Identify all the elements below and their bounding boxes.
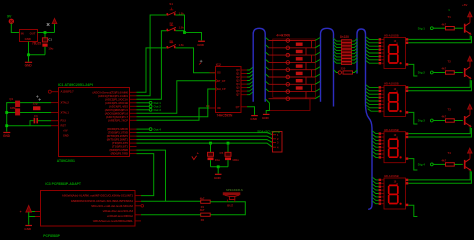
svg-text:πRCA/Sensor-test1/ODOut/SDL: πRCA/Sensor-test1/ODOut/SDL xyxy=(93,219,134,223)
ground GND5 xyxy=(214,174,222,180)
ground GND3 xyxy=(197,41,205,47)
svg-text:GND: GND xyxy=(3,134,11,138)
svg-text:T3: T3 xyxy=(448,107,452,111)
svg-text:4k7: 4k7 xyxy=(442,115,447,119)
7-seg display LED4 xyxy=(379,174,409,209)
svg-text:S1: S1 xyxy=(169,2,173,6)
svg-text:100n: 100n xyxy=(232,158,239,162)
RN2 resistor rows xyxy=(334,38,358,42)
svg-text:4k7: 4k7 xyxy=(442,67,447,71)
svg-text:GND: GND xyxy=(262,116,270,120)
crystal Q1 xyxy=(9,97,20,115)
svg-text:(ADC7)(SCK)P1.7: (ADC7)(SCK)P1.7 xyxy=(106,115,129,119)
svg-text:SDA+SCL×prog: SDA+SCL×prog xyxy=(257,130,280,134)
wire LED1 dp pin xyxy=(408,64,417,76)
op SV1 header box xyxy=(273,132,283,153)
svg-text:GND: GND xyxy=(214,176,222,180)
svg-text:(ADC6)(MISO)P1.6: (ADC6)(MISO)P1.6 xyxy=(105,111,129,115)
junction on line xyxy=(209,142,212,145)
svg-text:Q7': Q7' xyxy=(236,106,240,109)
op IC1 AT89C2051 box xyxy=(59,88,130,157)
wire P3.3 long line to connector pin3 xyxy=(137,140,273,143)
svg-text:GND0/OSC1/OSCO·A1/Sel1·SCL/SDA: GND0/OSC1/OSCO·A1/Sel1·SCL/SDA·INT0/SDA1 xyxy=(71,199,134,203)
left pin names and clock wedges xyxy=(217,72,226,110)
svg-text:Dig 3: Dig 3 xyxy=(418,119,425,123)
svg-text:DS: DS xyxy=(217,72,221,75)
switch S3 xyxy=(167,40,185,49)
svg-text:SPEAKER-S: SPEAKER-S xyxy=(226,188,243,192)
wire S3 right down to 595 DS xyxy=(176,48,216,73)
wire S1 right down xyxy=(176,15,185,33)
supply +5V arrow xyxy=(26,206,32,213)
svg-text:OE: OE xyxy=(217,107,221,110)
svg-text:(RD0)P3.7/RD: (RD0)P3.7/RD xyxy=(111,152,128,156)
wire LED3 anodes to T3 xyxy=(408,127,470,134)
node label P3.0 xyxy=(137,127,162,131)
svg-text:IN: IN xyxy=(21,31,24,35)
supply symbol +5V arrow xyxy=(47,19,57,26)
svg-text:8×220: 8×220 xyxy=(340,35,349,39)
resistor R1 xyxy=(200,197,210,210)
wire bus leg to RN1 ground xyxy=(266,99,270,114)
wire P3.2 long line to connector pin2 xyxy=(137,136,273,139)
svg-text:(ADC0+Servo)(T2)P1.0/AIN0: (ADC0+Servo)(T2)P1.0/AIN0 xyxy=(93,90,129,94)
right pin stubs P1 group xyxy=(130,92,137,153)
svg-text:Out 4: Out 4 xyxy=(154,127,162,131)
wire P3.1 long line to connector pin1 xyxy=(137,133,273,135)
segment wires bus to LED2 xyxy=(366,85,379,111)
RN1 rung rows: lead, circle, body, bus rippers xyxy=(266,38,321,43)
segment wires bus to LED3 xyxy=(372,131,378,157)
wire GND pin left down xyxy=(29,217,35,225)
svg-text:4k7: 4k7 xyxy=(442,22,447,26)
svg-text:78L05: 78L05 xyxy=(32,42,41,46)
ground GND4 xyxy=(250,115,258,121)
op IC2 74HC595 box xyxy=(216,67,242,113)
right pin names Q0-Q7 xyxy=(236,69,241,109)
svg-text:vObat+Osc-test·SCL/A3: vObat+Osc-test·SCL/A3 xyxy=(103,209,134,213)
svg-text:+: + xyxy=(20,210,22,214)
svg-text:(T00)P3.4/T0: (T00)P3.4/T0 xyxy=(112,141,128,145)
wire P3.4 long line to connector pin4 xyxy=(137,143,273,147)
junction xyxy=(183,31,186,34)
wire junction to ground xyxy=(185,33,202,41)
svg-text:IC3 PCF8583P-ADAPT: IC3 PCF8583P-ADAPT xyxy=(45,182,82,186)
svg-text:RST: RST xyxy=(61,124,67,128)
right pin stubs xyxy=(135,196,141,221)
svg-text:9V: 9V xyxy=(7,15,12,19)
junction xyxy=(5,111,8,114)
7-seg display LED3 xyxy=(379,128,409,163)
wire caps to ground xyxy=(211,166,229,168)
svg-text:Dig 4: Dig 4 xyxy=(418,163,425,167)
svg-text:Dig 1: Dig 1 xyxy=(418,26,425,30)
svg-text:AT89C2051: AT89C2051 xyxy=(57,159,75,163)
bus arch B from RN1 to RN2 xyxy=(321,28,334,106)
wire P1.1 up to button S1 left xyxy=(137,15,167,96)
node 9V supply pad X1 xyxy=(7,15,14,24)
svg-text:ST_CP: ST_CP xyxy=(217,80,225,83)
wire LED3 dp pin xyxy=(408,159,417,170)
node label P1.5 xyxy=(137,108,162,112)
resistor R2 xyxy=(200,208,210,222)
svg-text:C1: C1 xyxy=(48,38,52,42)
svg-text:(ADC1)(T2EX)P1.1/AIN1: (ADC1)(T2EX)P1.1/AIN1 xyxy=(98,94,129,98)
svg-text:22p: 22p xyxy=(33,102,38,106)
wire Q7' to ground xyxy=(247,107,255,115)
ground GND6 xyxy=(24,225,32,231)
wire LED2 anodes to T2 xyxy=(408,80,470,88)
svg-text:GND: GND xyxy=(25,37,31,41)
ground GND1 xyxy=(25,62,33,68)
pin P3.7 stub with circle xyxy=(48,90,51,93)
wire P1.6 to 595 ST_CP xyxy=(137,81,216,114)
switch S2 xyxy=(167,21,185,31)
svg-text:vcObd2-test·tODOut: vcObd2-test·tODOut xyxy=(107,214,133,218)
wire LED4 dp pin xyxy=(408,205,417,216)
svg-text:(AREF)P1.7/ICP: (AREF)P1.7/ICP xyxy=(108,118,128,122)
svg-text:IC1 AT89C2051-24PI: IC1 AT89C2051-24PI xyxy=(58,83,93,87)
pin stubs xyxy=(273,135,277,148)
svg-text:(ADC4)P1.4/SS: (ADC4)P1.4/SS xyxy=(109,104,128,108)
wire to 595 OE xyxy=(137,108,210,120)
wire regulator GND down xyxy=(29,42,46,55)
wire RTC pin to R1 xyxy=(141,200,201,202)
wire XTAL rail and XTAL2 line xyxy=(7,103,51,132)
op IC3 PCF8583 box xyxy=(41,191,136,227)
svg-text:T1: T1 xyxy=(448,15,452,19)
wire LED4 anodes to T4 xyxy=(408,171,470,180)
svg-text:GND: GND xyxy=(250,117,258,121)
node label P1.3 xyxy=(137,101,162,105)
buzzer SP1 speaker xyxy=(223,188,243,207)
pin 205.8 circle xyxy=(141,205,144,208)
svg-text:74HC595N: 74HC595N xyxy=(217,114,233,118)
junction on line xyxy=(227,142,230,145)
pin name rows xyxy=(62,194,134,223)
svg-text:+: + xyxy=(197,151,199,155)
svg-text:IC2: IC2 xyxy=(216,63,221,67)
capacitor C4 10u xyxy=(192,143,220,167)
svg-text:(WR0)P3.6/WR: (WR0)P3.6/WR xyxy=(109,148,128,152)
7-seg display LED2 xyxy=(379,82,409,117)
left pin stubs xyxy=(35,212,41,217)
wire LED1 anodes to T1 xyxy=(408,35,470,39)
svg-text:T4: T4 xyxy=(448,151,452,155)
pin stub xyxy=(51,120,59,122)
svg-text:4k7: 4k7 xyxy=(442,159,447,163)
svg-text:10u: 10u xyxy=(48,46,53,50)
svg-text:(INT00)P3.2/INT0: (INT00)P3.2/INT0 xyxy=(107,134,129,138)
right pin stubs Q0-Q7 xyxy=(241,70,247,107)
RN1 right side ladder links xyxy=(306,41,312,99)
segment wires bus to LED4 xyxy=(372,177,378,203)
svg-text:GND: GND xyxy=(25,64,33,68)
right pin names xyxy=(93,90,129,155)
wire up to +5V arrow xyxy=(54,24,56,33)
junction xyxy=(27,53,30,56)
svg-text:4×4k7RN: 4×4k7RN xyxy=(276,34,290,38)
bus arch A from 595 to RN1 xyxy=(253,28,265,101)
svg-text:(ADC2)P1.2/OC1A: (ADC2)P1.2/OC1A xyxy=(105,97,128,101)
svg-text:(T10)P3.5/T1: (T10)P3.5/T1 xyxy=(112,145,128,149)
voltage regulator IC5 78L05 xyxy=(20,30,42,46)
svg-text:Dig 2: Dig 2 xyxy=(418,71,425,75)
svg-text:Q1: Q1 xyxy=(9,97,13,101)
svg-text:+5V: +5V xyxy=(462,3,467,7)
wire 9V pad to regulator IN xyxy=(11,24,19,33)
svg-text:A0/Sel0(Adr)·ALARM_out/INT·OSC: A0/Sel0(Adr)·ALARM_out/INT·OSC1/CLK50Hz·… xyxy=(62,194,134,198)
bus display feeder xyxy=(357,29,372,209)
svg-text:A12/BP3.7: A12/BP3.7 xyxy=(61,90,75,94)
wire P1.0 up to button S3 left xyxy=(137,48,167,92)
junction node VCC xyxy=(44,31,47,34)
svg-text:PCF8583P: PCF8583P xyxy=(43,234,60,238)
svg-text:+5V: +5V xyxy=(63,130,68,133)
wire RST line xyxy=(7,125,51,127)
svg-text:OUT: OUT xyxy=(30,31,36,35)
svg-text:(ADC5)(MOSI)P1.5: (ADC5)(MOSI)P1.5 xyxy=(105,108,129,112)
svg-text:(TXD0)P3.1/TXD: (TXD0)P3.1/TXD xyxy=(108,131,128,135)
gray origin crosses xyxy=(36,95,41,101)
svg-text:(RXD0)P3.0/RXD: (RXD0)P3.0/RXD xyxy=(107,127,128,131)
wire LED2 dp pin xyxy=(408,112,417,124)
wire VCC pin left xyxy=(29,211,35,213)
capacitor C2 22p xyxy=(33,102,41,111)
svg-text:XTAL1: XTAL1 xyxy=(61,111,70,115)
svg-text:C5: C5 xyxy=(220,151,224,155)
svg-text:(ADC3)P1.3/OC1B: (ADC3)P1.3/OC1B xyxy=(105,101,128,105)
svg-text:220: 220 xyxy=(341,66,346,70)
junction xyxy=(5,124,8,127)
svg-text:P3.5: P3.5 xyxy=(61,119,67,123)
wire to ground xyxy=(28,55,30,62)
wires Q0-Q7 into bus with rippers xyxy=(247,67,254,95)
segment wires bus to LED1 xyxy=(366,37,379,63)
pin XTAL1 stub xyxy=(51,112,59,114)
wire regulator OUT to +5V node xyxy=(38,32,55,34)
svg-text:C3: C3 xyxy=(34,114,38,118)
svg-text:T2: T2 xyxy=(448,59,452,63)
svg-text:SDA+SCL+vdd-det·test0·SDA/A2: SDA+SCL+vdd-det·test0·SDA/A2 xyxy=(91,204,133,208)
wire P1.7 to 595 SH_CP xyxy=(137,89,216,117)
svg-text:GND: GND xyxy=(197,43,205,47)
capacitor C5 100n xyxy=(220,143,240,167)
svg-text:XTAL2: XTAL2 xyxy=(61,101,70,105)
wire P3.7 down to RTC pin xyxy=(137,154,154,196)
pin XTAL2 stub xyxy=(51,102,59,104)
wire S2 right xyxy=(176,30,185,32)
switch S1 xyxy=(167,2,185,15)
gray origin cross xyxy=(200,60,203,63)
extra inner left text xyxy=(63,130,69,138)
svg-text:SH_CP: SH_CP xyxy=(217,88,226,91)
svg-text:GND: GND xyxy=(63,135,69,138)
svg-text:GND: GND xyxy=(24,227,32,231)
7-seg display LED1 xyxy=(379,34,409,69)
svg-text:1.5k: 1.5k xyxy=(179,43,185,47)
ground GND2 xyxy=(3,131,11,138)
pin RST stub xyxy=(51,125,59,127)
wire R1 right loop to R2 xyxy=(210,202,245,215)
pin OE stub xyxy=(209,107,216,109)
svg-text:10u: 10u xyxy=(215,158,220,162)
svg-text:Out 3: Out 3 xyxy=(154,108,162,112)
node label P1.4 xyxy=(137,105,162,109)
resistor R dp xyxy=(334,66,358,74)
svg-text:1.5k: 1.5k xyxy=(179,26,185,30)
svg-text:(INT10)P3.3/INT1: (INT10)P3.3/INT1 xyxy=(107,138,129,142)
wire P3.6 down to buzzer resistor line xyxy=(137,150,166,201)
RN1 bottom rung xyxy=(269,96,321,111)
ground GND7 xyxy=(262,114,270,120)
capacitor C3 22p xyxy=(30,114,51,126)
svg-text:4k7: 4k7 xyxy=(200,208,205,212)
left pin names xyxy=(61,90,75,128)
wire R2 left to RTC xyxy=(141,214,201,216)
resistor network RN1 outline xyxy=(273,39,316,97)
wire XTAL1 line xyxy=(7,112,51,114)
svg-text:BUZ: BUZ xyxy=(227,203,233,207)
wire P1.2 up to button S2 left xyxy=(137,31,167,100)
capacitor C1 10u xyxy=(42,33,53,55)
